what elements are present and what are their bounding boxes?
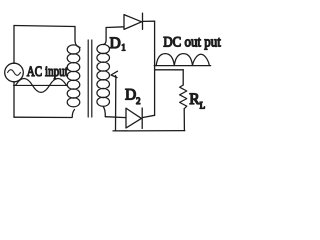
wire: D1 cathode to junction (143, 20, 155, 22)
transformer primary winding (67, 45, 80, 107)
wire: AC loop left edge upper (13, 26, 15, 64)
wire: secondary top to D1 anode (106, 26, 124, 29)
wire: RL bottom lead (183, 109, 185, 131)
transformer core (88, 40, 92, 117)
svg-text:2: 2 (136, 96, 141, 106)
AC waveform sine (16, 78, 67, 92)
wire: D2 cathode to junction (142, 115, 154, 117)
DC output waveform humps (156, 54, 209, 66)
wire: secondary bottom lead (103, 106, 105, 116)
wire: secondary top lead (104, 28, 107, 45)
wire: AC loop top edge (14, 26, 75, 27)
wire: bottom rail (113, 130, 185, 132)
wire: D2 anode wire (105, 116, 126, 119)
wire: RL top lead (182, 70, 184, 85)
svg-text:DC out put: DC out put (163, 35, 221, 51)
wire: AC loop left edge lower (13, 82, 15, 117)
wire: center tap down lead (115, 76, 117, 131)
svg-text:L: L (200, 101, 206, 111)
AC waveform axis (14, 84, 68, 86)
svg-text:D: D (110, 35, 121, 52)
svg-text:1: 1 (121, 43, 126, 53)
resistor RL (180, 85, 187, 109)
wire: primary bottom lead (72, 110, 74, 118)
DC output waveform baseline (154, 65, 211, 67)
wire: primary top lead (75, 27, 80, 48)
wire: output top (155, 69, 184, 71)
transformer secondary winding (97, 44, 110, 106)
wire: cathode junction vertical (154, 21, 156, 115)
center tap arrow (111, 71, 118, 77)
AC source (5, 63, 24, 82)
wire: AC loop bottom edge (14, 116, 72, 118)
diode D1 (124, 13, 143, 29)
diode D2 (126, 108, 142, 129)
svg-text:D: D (125, 87, 136, 104)
svg-text:AC input: AC input (27, 64, 69, 80)
